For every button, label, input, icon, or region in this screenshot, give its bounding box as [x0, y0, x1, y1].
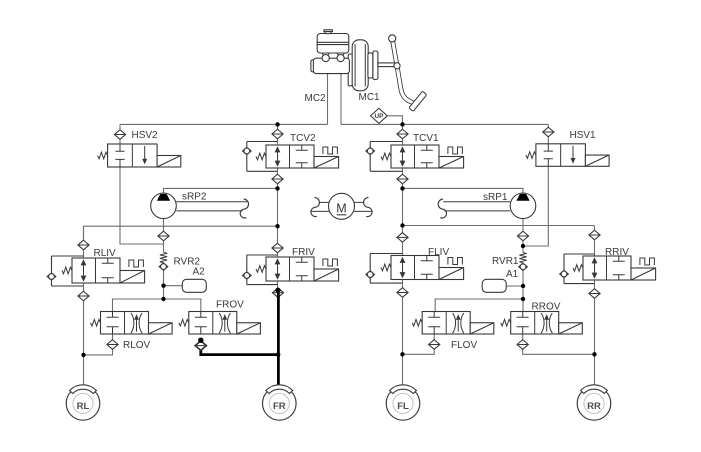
svg-text:M: M	[336, 201, 346, 215]
svg-text:RL: RL	[77, 401, 90, 412]
svg-text:HSV1: HSV1	[570, 130, 597, 141]
svg-text:MC1: MC1	[359, 92, 381, 103]
svg-text:RRIV: RRIV	[605, 247, 629, 258]
svg-text:FL: FL	[397, 401, 409, 412]
svg-text:TCV1: TCV1	[413, 133, 439, 144]
svg-text:sRP1: sRP1	[483, 192, 508, 203]
svg-text:RROV: RROV	[532, 302, 561, 313]
svg-text:FR: FR	[273, 401, 286, 412]
svg-text:RVR1: RVR1	[492, 256, 519, 267]
svg-text:UP: UP	[374, 113, 384, 120]
svg-text:RLOV: RLOV	[123, 340, 151, 351]
svg-text:RLIV: RLIV	[94, 248, 117, 259]
svg-text:MC2: MC2	[305, 93, 327, 104]
svg-text:FLIV: FLIV	[428, 247, 449, 258]
svg-text:sRP2: sRP2	[182, 191, 207, 202]
svg-text:FROV: FROV	[216, 300, 244, 311]
svg-text:RR: RR	[587, 401, 601, 412]
svg-text:A1: A1	[506, 269, 519, 280]
svg-text:TCV2: TCV2	[290, 133, 316, 144]
svg-text:HSV2: HSV2	[132, 130, 159, 141]
svg-text:A2: A2	[193, 267, 206, 278]
svg-text:FRIV: FRIV	[292, 247, 315, 258]
svg-text:FLOV: FLOV	[451, 340, 477, 351]
